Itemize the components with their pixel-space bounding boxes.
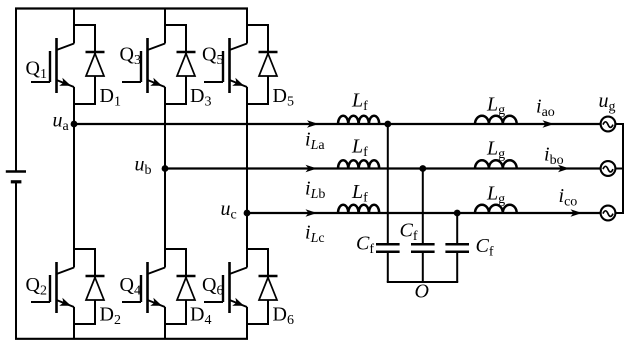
current arrow i_La xyxy=(305,120,325,153)
diode D2 xyxy=(74,249,121,328)
svg-text:Lg: Lg xyxy=(486,183,505,208)
current arrow i_co xyxy=(559,185,583,217)
svg-text:ug: ug xyxy=(599,90,616,115)
diode D5 xyxy=(247,25,294,110)
svg-text:Q2: Q2 xyxy=(26,274,47,299)
svg-text:Cf: Cf xyxy=(400,220,418,245)
wire phase-a output line xyxy=(74,123,601,125)
svg-text:D6: D6 xyxy=(273,304,294,329)
wire grid neutral bus xyxy=(615,123,623,214)
svg-text:ibo: ibo xyxy=(544,144,564,169)
AC source phase c xyxy=(601,206,616,221)
transistor Q6 xyxy=(202,249,247,313)
wire phase-b leg xyxy=(164,9,166,339)
svg-text:iLb: iLb xyxy=(305,178,325,203)
svg-text:ua: ua xyxy=(53,110,70,135)
svg-text:D3: D3 xyxy=(190,85,211,110)
AC source phase b xyxy=(601,161,616,176)
transistor Q2 xyxy=(26,249,75,313)
svg-text:ico: ico xyxy=(559,185,578,210)
svg-text:D1: D1 xyxy=(100,85,121,110)
svg-text:D4: D4 xyxy=(190,304,211,329)
wire phase-c output line xyxy=(247,212,601,214)
svg-text:Lf: Lf xyxy=(351,90,368,115)
AC source u_g phase a xyxy=(599,90,616,131)
svg-text:Cf: Cf xyxy=(476,235,494,260)
svg-text:Lg: Lg xyxy=(486,94,505,119)
wire cap branch c xyxy=(456,213,458,244)
svg-text:Lf: Lf xyxy=(351,136,368,161)
inductor L_g phase c xyxy=(475,183,517,214)
svg-text:Q4: Q4 xyxy=(120,274,141,299)
wire cap branch b xyxy=(422,169,424,245)
node u_b xyxy=(135,154,169,179)
node filter tap c xyxy=(454,210,461,217)
wire phase-b output line xyxy=(165,167,601,169)
diode D1 xyxy=(74,25,121,110)
inductor L_g phase a xyxy=(475,94,517,125)
svg-text:D2: D2 xyxy=(100,304,121,329)
wire neutral bus O xyxy=(387,281,458,283)
node u_a xyxy=(53,110,78,135)
diode D6 xyxy=(247,249,294,328)
transistor Q3 xyxy=(120,25,166,93)
svg-text:iao: iao xyxy=(536,96,555,121)
svg-text:O: O xyxy=(415,281,429,303)
inductor L_g phase b xyxy=(475,138,517,169)
node filter tap a xyxy=(384,121,391,128)
svg-text:Lg: Lg xyxy=(486,138,505,163)
svg-text:Q6: Q6 xyxy=(202,274,223,299)
inductor L_f phase c xyxy=(338,181,379,213)
capacitor C_f phase c xyxy=(445,235,493,260)
node filter tap b xyxy=(419,165,426,172)
transistor Q5 xyxy=(202,25,247,93)
svg-text:uc: uc xyxy=(221,198,237,223)
diode D4 xyxy=(165,249,211,328)
svg-text:iLa: iLa xyxy=(305,129,325,154)
transistor Q1 xyxy=(26,25,75,93)
svg-text:ub: ub xyxy=(135,154,152,179)
transistor Q4 xyxy=(120,249,166,313)
svg-text:Q5: Q5 xyxy=(202,44,223,69)
svg-text:Cf: Cf xyxy=(356,233,374,258)
capacitor C_f phase a xyxy=(356,233,400,258)
current arrow i_bo xyxy=(544,144,570,173)
wire bottom DC bus xyxy=(15,338,248,340)
wire DC source bottom lead xyxy=(15,182,17,339)
svg-text:D5: D5 xyxy=(273,85,294,110)
capacitor C_f phase b xyxy=(400,220,435,252)
battery DC source xyxy=(6,172,26,182)
inductor L_f phase b xyxy=(338,136,379,169)
current arrow i_Lc xyxy=(305,209,325,246)
svg-text:Q3: Q3 xyxy=(120,44,141,69)
current arrow i_ao xyxy=(536,96,555,128)
wire cap branch a xyxy=(387,124,389,244)
inductor L_f phase a xyxy=(338,90,379,125)
svg-text:Lf: Lf xyxy=(351,181,368,206)
wire cap bottom leads xyxy=(388,252,457,282)
wire phase-a leg xyxy=(73,9,75,339)
current arrow i_Lb xyxy=(305,165,325,202)
node u_c xyxy=(221,198,251,223)
svg-text:iLc: iLc xyxy=(305,222,325,247)
wire phase-c leg xyxy=(246,9,248,339)
wire top DC bus xyxy=(15,7,248,9)
wire DC source top lead xyxy=(15,9,17,172)
svg-text:Q1: Q1 xyxy=(26,58,47,83)
diode D3 xyxy=(165,25,211,110)
